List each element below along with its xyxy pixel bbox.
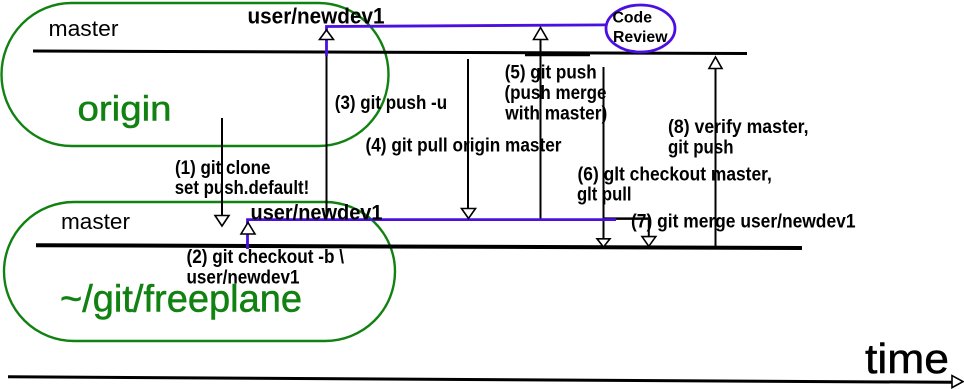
svg-text:Review: Review xyxy=(613,29,668,46)
svg-text:master: master xyxy=(49,16,119,41)
svg-text:time: time xyxy=(865,335,949,382)
wire (6) git checkout stem xyxy=(603,67,605,239)
arrowhead (6) down xyxy=(597,239,610,247)
time axis line xyxy=(8,377,952,383)
wire (8) verify stem xyxy=(715,69,717,247)
wire (4) git pull stem xyxy=(467,59,469,209)
arrowhead time axis right xyxy=(952,376,963,388)
wire (7) merge connector from line 6 xyxy=(604,217,650,220)
svg-text:(5) git push: (5) git push xyxy=(505,62,597,83)
arrowhead (4) down xyxy=(462,209,476,219)
svg-text:(8) verify master,: (8) verify master, xyxy=(668,117,809,138)
svg-text:(3) git push -u: (3) git push -u xyxy=(335,93,447,114)
svg-text:origin: origin xyxy=(78,89,172,128)
arrowhead (7) down xyxy=(642,237,656,247)
svg-text:(2) git checkout -b \: (2) git checkout -b \ xyxy=(187,247,345,268)
svg-text:with master): with master) xyxy=(504,103,607,124)
arrowhead (8) up xyxy=(709,57,722,69)
local user/newdev1 branch line (purple) xyxy=(248,220,617,249)
arrowhead (1) down xyxy=(215,216,229,227)
local repository rounded box ~/git/freeplane xyxy=(4,202,395,341)
wire (7) git merge stem xyxy=(648,220,650,237)
svg-text:user/newdev1: user/newdev1 xyxy=(248,3,385,28)
svg-text:(push merge: (push merge xyxy=(505,83,607,104)
local master branch line xyxy=(36,245,802,248)
wire (3) git push stem xyxy=(326,40,328,220)
svg-text:(6) glt checkout master,: (6) glt checkout master, xyxy=(578,164,772,185)
svg-text:glt pull: glt pull xyxy=(577,184,632,205)
arrowhead (5) up xyxy=(534,28,548,40)
origin master branch line overlap segment xyxy=(525,54,590,57)
origin user/newdev1 branch line (purple) xyxy=(327,25,607,56)
arrowhead (2) up xyxy=(241,223,255,235)
svg-text:(1) git clone: (1) git clone xyxy=(175,158,271,179)
wire (1) git clone stem xyxy=(221,118,223,216)
svg-text:git push: git push xyxy=(668,138,734,159)
svg-text:user/newdev1: user/newdev1 xyxy=(187,267,300,288)
origin repository rounded box xyxy=(2,3,389,146)
Code Review ellipse xyxy=(606,5,675,52)
svg-text:Code: Code xyxy=(613,9,653,26)
origin master branch line xyxy=(33,51,747,54)
svg-text:user/newdev1: user/newdev1 xyxy=(251,202,383,225)
wire (5) git push stem xyxy=(540,40,542,219)
svg-text:set push.default!: set push.default! xyxy=(175,178,310,199)
svg-text:master: master xyxy=(61,209,130,234)
arrowhead (3) up xyxy=(320,30,334,40)
svg-text:(4) git pull origin master: (4) git pull origin master xyxy=(366,136,563,157)
svg-text:(7) git merge user/newdev1: (7) git merge user/newdev1 xyxy=(631,212,856,233)
